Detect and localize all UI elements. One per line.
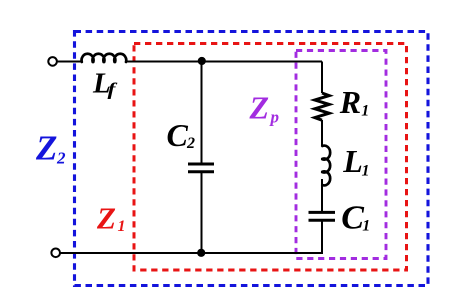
svg-text:1: 1	[362, 217, 370, 234]
svg-text:L: L	[342, 143, 363, 179]
svg-text:2: 2	[186, 135, 195, 152]
inductor Lf	[82, 54, 127, 62]
input terminal (bottom, open circle)	[51, 249, 60, 258]
node junction dot (bottom, C2 tap)	[197, 249, 205, 257]
svg-text:Z: Z	[249, 90, 270, 126]
wire: top rail from Lf to upper-right corner	[126, 61, 322, 63]
svg-text:2: 2	[56, 149, 66, 168]
wire: bottom rail	[60, 252, 322, 254]
impedance boundary Zp (purple dashed rectangle)	[296, 51, 386, 259]
capacitor C2	[188, 163, 214, 166]
inductor L1	[322, 146, 330, 186]
input terminal (top, open circle)	[48, 57, 57, 66]
wire: below C1 to bottom rail	[321, 220, 323, 254]
svg-text:p: p	[269, 108, 280, 127]
impedance boundary Z1 (red dashed rectangle)	[134, 44, 407, 271]
svg-text:C: C	[341, 199, 364, 236]
wire: C2 branch vertical	[201, 62, 203, 165]
svg-text:C: C	[167, 117, 189, 153]
wire: between R1 and L1	[321, 120, 323, 147]
svg-text:Z: Z	[35, 129, 57, 168]
svg-text:1: 1	[361, 102, 369, 119]
svg-text:1: 1	[362, 163, 370, 180]
wire: top rail from input terminal to inductor Lf	[57, 61, 83, 63]
wire: between L1 and C1	[321, 179, 323, 212]
capacitor C1	[309, 211, 336, 214]
svg-text:R: R	[339, 84, 361, 120]
svg-text:Z: Z	[96, 201, 116, 236]
resistor R1	[315, 93, 329, 120]
wire: C2 branch lower vertical	[201, 172, 203, 253]
node junction dot (top, C2 tap)	[198, 57, 206, 65]
impedance boundary Z2 (blue dashed rectangle)	[75, 32, 429, 286]
svg-text:1: 1	[118, 218, 126, 235]
wire: right branch vertical upper	[321, 62, 323, 94]
